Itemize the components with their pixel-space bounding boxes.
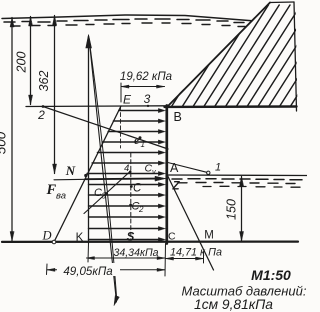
- dot at C: [130, 185, 133, 188]
- svg-text:362: 362: [37, 71, 51, 92]
- top ground hatch dashes row1: [4, 19, 244, 23]
- dim 200 vertical line: [30, 17, 32, 105]
- dot at 4: [129, 171, 132, 174]
- wall bottom edge: [165, 105, 297, 108]
- dim 14.71 line with arrows: [166, 258, 204, 260]
- pressure arrow row12: [89, 228, 163, 230]
- hatched wall cross-section: [168, 5, 320, 112]
- dim 19.62 left tick: [120, 83, 122, 102]
- dot at N: [84, 174, 87, 177]
- line from point 2 through e1 to wall: [43, 107, 168, 150]
- top ground surface line: [2, 15, 252, 21]
- svg-text:19,62 кПа: 19,62 кПа: [120, 71, 172, 83]
- dot at C3: [105, 192, 108, 195]
- front ground dashes row1: [172, 179, 302, 180]
- short dashed extension below E: [120, 106, 122, 148]
- svg-text:F: F: [46, 182, 57, 198]
- dim 362 top arrow: [53, 16, 57, 26]
- dim 200 top arrow: [29, 17, 33, 27]
- label 49,05 kPa: [57, 263, 120, 276]
- dim 362 vertical line: [54, 16, 56, 174]
- open circle point 1: [207, 171, 210, 174]
- svg-text:D: D: [41, 229, 51, 243]
- svg-text:B: B: [174, 110, 182, 124]
- pressure arrow row8: [89, 184, 163, 186]
- top ground hatch dashes row2: [12, 23, 245, 27]
- svg-text:S: S: [127, 232, 135, 244]
- svg-text:C: C: [168, 231, 176, 243]
- svg-text:4: 4: [124, 163, 129, 174]
- svg-text:1: 1: [215, 162, 221, 174]
- dim 150 top arrow: [240, 177, 244, 187]
- svg-text:K: K: [76, 232, 84, 244]
- bottom ground line: [2, 241, 298, 243]
- pressure arrow row2: [113, 120, 162, 122]
- svg-text:34,34кПа: 34,34кПа: [113, 247, 158, 259]
- wall sloped left edge: [167, 3, 271, 108]
- pressure arrow row4: [103, 141, 162, 143]
- long thin line T to P: [89, 38, 117, 302]
- E-level horizontal line (top of pressure diagram, through point 2): [26, 105, 167, 108]
- front ground dashes row2: [178, 183, 295, 184]
- svg-text:500: 500: [0, 131, 9, 154]
- dim 150 vertical line: [241, 177, 243, 242]
- dashed centroid vertical line through C points to S: [130, 153, 132, 240]
- front ground surface line (right of wall): [169, 174, 308, 177]
- pressure arrow row5: [97, 152, 162, 154]
- pressure arrow row10: [89, 205, 163, 207]
- svg-text:200: 200: [15, 52, 29, 74]
- dim 362 bottom arrow: [53, 164, 57, 174]
- dim 49.05 line with arrows: [47, 269, 165, 271]
- pressure arrow row9: [89, 194, 163, 196]
- pressure arrow row7: [87, 173, 162, 175]
- bold arrowhead at wall A: [155, 176, 166, 181]
- dim 49.05 left tick: [46, 264, 49, 275]
- svg-text:1см 9,81кПа: 1см 9,81кПа: [194, 297, 273, 312]
- pressure arrow row13: [89, 239, 163, 241]
- line A to M crossing below ground: [167, 175, 214, 271]
- svg-text:M: M: [204, 230, 214, 242]
- dim 500 top arrow: [10, 18, 14, 28]
- svg-text:N: N: [65, 163, 76, 178]
- svg-text:3: 3: [144, 92, 151, 106]
- dim 500 vertical line: [11, 18, 13, 242]
- dot at C2: [129, 204, 132, 207]
- vertical line T to K at x=88.5: [88, 37, 90, 244]
- svg-text:e: e: [134, 135, 139, 147]
- wall top edge: [270, 1, 294, 4]
- svg-text:150: 150: [225, 199, 239, 220]
- dim 200 bottom arrow: [29, 95, 33, 105]
- svg-text:3: 3: [102, 192, 107, 201]
- dim 500 bottom arrow: [10, 232, 14, 242]
- dim 150 bottom arrow: [240, 232, 244, 242]
- pressure arrow row1: [119, 110, 162, 112]
- up arrow at T: [86, 35, 92, 49]
- line from wall to point 1 on front surface: [168, 163, 207, 173]
- dim 34.34 left tick (K extension): [87, 243, 90, 262]
- svg-text:14,71 к Па: 14,71 к Па: [170, 247, 222, 259]
- dot at point 3: [147, 105, 149, 107]
- wall right edge: [294, 2, 297, 111]
- down arrow with dot at P: [114, 296, 119, 306]
- svg-text:М1:50: М1:50: [251, 267, 291, 283]
- open circle at D: [52, 240, 56, 244]
- slant line E to D (left boundary of pressure diagram): [54, 106, 121, 242]
- svg-text:1: 1: [141, 140, 145, 149]
- svg-text:2: 2: [138, 205, 144, 214]
- svg-text:49,05кПа: 49,05кПа: [63, 265, 113, 278]
- svg-text:ва: ва: [56, 191, 66, 202]
- pressure arrow row11: [89, 216, 163, 218]
- dim 19.62 line with arrows: [121, 86, 165, 88]
- companion curved line T to P: [89, 40, 117, 300]
- front ground dashes row3: [203, 185, 300, 188]
- svg-text:A: A: [170, 161, 179, 175]
- svg-text:C: C: [133, 183, 142, 195]
- centroid connector line C3 to 4: [84, 172, 130, 214]
- svg-text:2: 2: [37, 108, 45, 122]
- bold resultant force line N to A: [54, 178, 86, 181]
- pressure arrow row6: [92, 162, 162, 164]
- pressure arrow row3: [108, 131, 162, 133]
- svg-text:v: v: [152, 167, 157, 176]
- wall back face B-C: [165, 106, 168, 244]
- dot at point 2: [42, 105, 45, 108]
- svg-text:Z: Z: [172, 181, 181, 193]
- svg-text:E: E: [123, 93, 132, 107]
- dim 34.34 line with arrows: [87, 257, 166, 259]
- dim 14.71 right tick: [203, 252, 205, 263]
- dot at e1: [139, 136, 142, 139]
- wall extension tick below ground: [164, 244, 167, 277]
